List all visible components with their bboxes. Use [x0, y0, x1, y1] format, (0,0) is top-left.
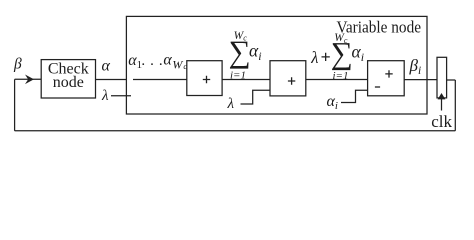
svg-text:β: β: [13, 56, 22, 73]
svg-text:αi: αi: [327, 93, 338, 112]
wire right vertical: [454, 80, 456, 131]
adder U2 box: [270, 61, 306, 96]
arrowhead into check node: [26, 76, 33, 83]
label sum formula 1: [229, 30, 262, 82]
label plus U2: [288, 77, 295, 84]
svg-text:αi: αi: [352, 41, 365, 63]
wire beta_i U3 to register: [404, 79, 437, 81]
label plus U1: [203, 76, 210, 83]
svg-text:c: c: [183, 61, 187, 71]
adder U1 box: [187, 61, 222, 96]
register box: [437, 57, 447, 98]
svg-text:W: W: [172, 57, 183, 71]
svg-text:i=1: i=1: [333, 70, 349, 82]
svg-text:αi: αi: [249, 40, 262, 62]
svg-text:i=1: i=1: [230, 69, 246, 81]
wire beta into check node: [15, 78, 42, 80]
wire lambda step to U2: [241, 90, 271, 104]
svg-text:. . .: . . .: [141, 53, 162, 69]
svg-text:α: α: [102, 58, 111, 75]
svg-text:α1: α1: [128, 52, 142, 71]
svg-text:α: α: [163, 52, 172, 69]
wire lambda port: [111, 95, 131, 97]
svg-text:node: node: [53, 74, 84, 91]
svg-text:clk: clk: [431, 112, 452, 131]
wire left vertical: [14, 79, 16, 131]
wire alpha out of check node: [96, 79, 127, 81]
svg-text:Variable node: Variable node: [337, 17, 422, 36]
svg-text:λ: λ: [310, 48, 318, 67]
variable node box: [126, 16, 427, 114]
label plus U3: [385, 70, 392, 77]
wire register to right corner: [447, 79, 456, 81]
arrowhead clk: [438, 94, 444, 99]
check node box: [41, 60, 95, 98]
adder-subtractor U3 box: [368, 61, 405, 96]
svg-text:βi: βi: [409, 56, 422, 77]
label lambda plus sum formula 2: [310, 32, 364, 82]
svg-text:λ: λ: [227, 96, 235, 112]
wire sum alpha U1 to U2: [222, 79, 270, 81]
wire alpha1..alphaWc into adder U1: [133, 79, 187, 81]
wire clk shaft: [441, 99, 443, 111]
label minus U3: [375, 86, 380, 88]
svg-text:λ: λ: [101, 88, 109, 104]
wire alpha_i step to U3: [341, 90, 368, 102]
svg-text:Wc: Wc: [234, 30, 248, 43]
wire lambda+sum U2 to U3: [306, 79, 368, 81]
wire bottom feedback: [15, 130, 456, 132]
